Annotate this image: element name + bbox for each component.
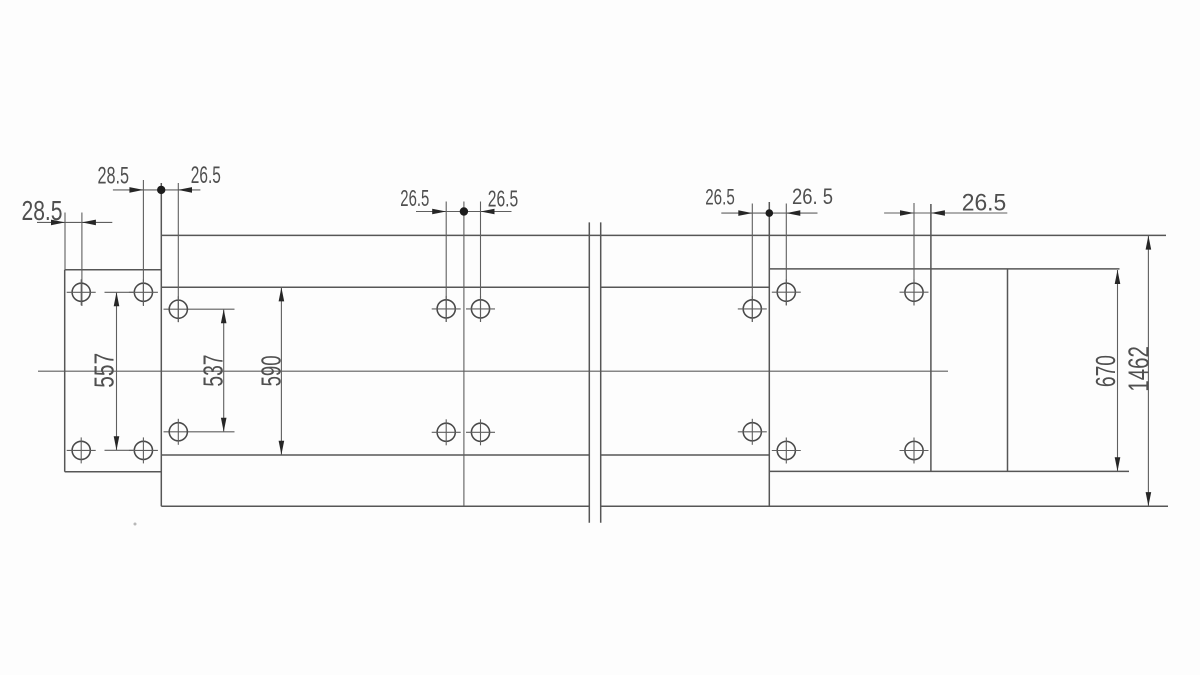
dimension 537 vertical xyxy=(164,309,235,432)
hole body middle bottom-right xyxy=(466,419,495,445)
right plate top edge with extension xyxy=(769,268,1119,270)
hole body middle bottom-left xyxy=(432,419,461,445)
left plate top edge xyxy=(65,269,162,271)
hole right plate bottom-left xyxy=(772,438,801,464)
right plate left edge xyxy=(768,202,770,506)
main body bottom edge right of break xyxy=(601,505,1168,507)
main body bottom edge left of break xyxy=(161,505,589,507)
dimension line D1 28.5/26.5 top xyxy=(113,187,200,193)
inner top line right of break xyxy=(601,286,770,288)
svg-text:28.5: 28.5 xyxy=(22,195,63,226)
extension line x914 xyxy=(913,203,915,306)
svg-text:26.5: 26.5 xyxy=(705,185,735,210)
break line 1 xyxy=(588,222,590,522)
svg-text:26.5: 26.5 xyxy=(400,185,429,211)
hole right plate top-right xyxy=(900,279,929,305)
extension line x446 xyxy=(445,202,447,323)
extension line x82 xyxy=(81,213,83,307)
inner top line left of break xyxy=(161,286,589,288)
svg-text:537: 537 xyxy=(198,355,229,387)
dimension 670 vertical xyxy=(1115,270,1121,471)
dimension 590 vertical xyxy=(279,287,285,454)
hole right plate bottom-right xyxy=(900,438,929,464)
right plate right edge xyxy=(1007,269,1009,472)
svg-text:590: 590 xyxy=(255,355,286,386)
hole body left top xyxy=(169,296,187,322)
extension line x178 xyxy=(177,183,179,322)
dimension 557 vertical xyxy=(105,292,134,450)
dimension line D3 26.5/26.5 middle xyxy=(416,209,512,215)
svg-text:26.5: 26.5 xyxy=(962,190,1007,217)
left plate left edge xyxy=(64,270,66,472)
hole body middle top-right xyxy=(466,296,495,322)
hole body right top xyxy=(738,296,767,322)
hole body left bottom xyxy=(169,419,187,445)
hole left plate bottom-left xyxy=(67,437,96,463)
dimension line D4 26.5/26.5 right xyxy=(721,210,817,216)
hole left plate bottom-right xyxy=(129,437,158,463)
inner bottom line left of break xyxy=(161,454,589,456)
section line x464 xyxy=(463,202,465,507)
dimension line D2 28.5 far left xyxy=(37,220,112,226)
dimension line D5 26.5 far right xyxy=(884,210,1007,216)
extension line x65 xyxy=(64,213,66,270)
horizontal centerline xyxy=(38,370,948,372)
svg-text:28.5: 28.5 xyxy=(98,163,130,190)
hole body right bottom xyxy=(738,419,767,445)
main body top edge xyxy=(161,234,1166,236)
break line 2 xyxy=(600,222,602,522)
svg-text:1462: 1462 xyxy=(1124,346,1156,392)
extension line x143 xyxy=(142,180,144,306)
svg-text:26. 5: 26. 5 xyxy=(792,184,833,209)
right plate inner vertical edge xyxy=(930,204,932,471)
inner bottom line right of break xyxy=(601,454,770,456)
left plate bottom edge xyxy=(65,471,162,473)
node dot D3 xyxy=(460,207,468,215)
svg-text:670: 670 xyxy=(1090,355,1121,387)
extension line x752 xyxy=(751,204,753,323)
shared vertical edge left plate right / body left xyxy=(160,183,162,506)
extension line x480 xyxy=(480,202,482,323)
svg-text:26.5: 26.5 xyxy=(191,162,221,189)
hole right plate top-left xyxy=(772,279,801,305)
speck xyxy=(134,523,137,526)
node dot D1 xyxy=(157,186,165,194)
node dot D4 xyxy=(766,209,774,217)
hole left plate top-left xyxy=(67,279,96,305)
svg-text:557: 557 xyxy=(88,353,119,388)
right plate bottom edge with extension xyxy=(769,470,1129,472)
dimension 1462 vertical xyxy=(1146,236,1152,507)
hole left plate top-right xyxy=(129,279,158,305)
svg-text:26.5: 26.5 xyxy=(488,186,519,212)
extension line x786 xyxy=(785,204,787,306)
hole body middle top-left xyxy=(432,296,461,322)
